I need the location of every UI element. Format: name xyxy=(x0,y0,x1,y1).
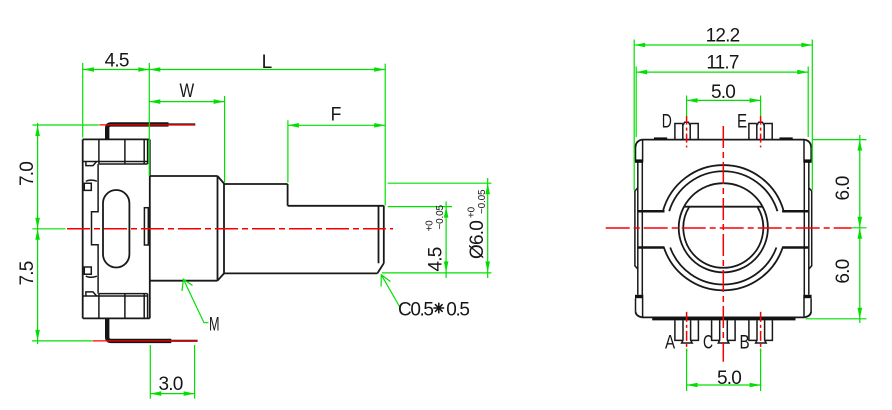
svg-text:B: B xyxy=(740,332,750,353)
bottom pin centerline xyxy=(92,340,197,342)
dimension L xyxy=(149,52,385,205)
label E xyxy=(737,111,747,132)
threaded section and flat step xyxy=(224,184,384,273)
label B xyxy=(740,332,750,353)
svg-text:11.7: 11.7 xyxy=(706,52,739,73)
svg-text:0.5: 0.5 xyxy=(446,300,469,321)
bottom ledge xyxy=(652,318,795,321)
pin D xyxy=(675,122,698,139)
svg-text:−0.05: −0.05 xyxy=(477,189,488,214)
svg-text:6.0: 6.0 xyxy=(833,259,854,283)
svg-text:C0.5: C0.5 xyxy=(398,300,433,321)
capsule slot xyxy=(103,190,129,268)
right side lug plate xyxy=(809,188,812,270)
svg-text:L: L xyxy=(262,52,272,73)
left ear tabs xyxy=(635,140,643,318)
bushing cylinder xyxy=(151,176,218,281)
body outline side view xyxy=(83,139,150,318)
svg-text:4.5: 4.5 xyxy=(105,51,129,72)
shaft D-cut circle R4 xyxy=(683,207,763,268)
dimension 3.0 bottom xyxy=(150,345,194,399)
dimension F xyxy=(288,105,385,183)
front body outline xyxy=(636,140,812,318)
label A xyxy=(665,332,675,353)
dimension 4.5 tolerance shaft flat xyxy=(382,202,491,279)
pin B centerline xyxy=(760,312,762,352)
main horizontal centerline left view xyxy=(67,228,393,230)
svg-text:D: D xyxy=(662,111,672,132)
pin E xyxy=(749,122,772,139)
label D xyxy=(662,111,672,132)
dimension diameter 6.0 tolerance xyxy=(388,178,492,278)
svg-text:Ø6.0: Ø6.0 xyxy=(467,221,488,259)
ring inner circle R2 xyxy=(669,171,777,284)
svg-text:12.2: 12.2 xyxy=(706,26,740,47)
svg-text:W: W xyxy=(180,81,195,102)
dimension 6.0 pair right xyxy=(806,135,867,323)
svg-text:4.5: 4.5 xyxy=(426,247,447,271)
svg-text:3.0: 3.0 xyxy=(158,374,182,395)
right ear tabs xyxy=(804,140,812,318)
dimension 11.7 xyxy=(636,52,808,137)
svg-text:+0: +0 xyxy=(467,206,478,218)
svg-text:7.5: 7.5 xyxy=(17,261,38,285)
svg-text:A: A xyxy=(665,332,675,353)
dimension W xyxy=(149,81,224,183)
shaft end chamfer xyxy=(377,206,384,274)
left inner profile with notch xyxy=(92,164,99,294)
bushing taper xyxy=(218,176,225,281)
svg-text:F: F xyxy=(331,105,341,126)
dimension 12.2 xyxy=(634,26,812,191)
right boss rectangle xyxy=(144,208,148,245)
bottom terminal strip xyxy=(83,294,148,319)
lower claw latch xyxy=(84,267,97,277)
pin C xyxy=(712,320,736,343)
pin E centerline xyxy=(760,116,762,148)
leader M xyxy=(182,279,219,335)
top terminal strip xyxy=(83,139,148,164)
top bent pin xyxy=(107,124,195,139)
leader C0.5x0.5 xyxy=(381,275,469,321)
top hook detail xyxy=(86,162,97,166)
dimension 7.0 and 7.5 left xyxy=(17,123,99,344)
pin A centerline xyxy=(686,312,688,352)
pin A xyxy=(675,320,699,343)
svg-text:C: C xyxy=(703,332,713,353)
bottom bent pin xyxy=(107,318,197,341)
front view horizontal centerline xyxy=(606,227,852,229)
svg-text:5.0: 5.0 xyxy=(711,82,735,103)
hub circle R3 xyxy=(679,183,768,272)
shaft flat chord xyxy=(684,206,763,208)
svg-text:−0.05: −0.05 xyxy=(435,205,446,230)
top edge bumps xyxy=(654,137,793,140)
front view vertical centerline xyxy=(722,126,724,362)
svg-text:6.0: 6.0 xyxy=(833,176,854,200)
svg-text:7.0: 7.0 xyxy=(17,162,38,186)
bottom hook detail xyxy=(86,292,97,296)
label C xyxy=(703,332,713,353)
left side lug plate xyxy=(635,188,638,270)
dimension 5.0 bottom xyxy=(687,349,761,392)
side notch lines xyxy=(638,211,808,247)
pin B xyxy=(749,320,773,343)
svg-text:M: M xyxy=(209,315,219,336)
top pin centerline xyxy=(99,124,194,126)
upper claw latch xyxy=(84,180,97,190)
svg-text:5.0: 5.0 xyxy=(717,368,741,389)
dimension 5.0 top xyxy=(687,82,761,116)
outer ring circle R1 xyxy=(663,165,784,290)
dimension 4.5 top left xyxy=(83,51,150,177)
pin D centerline xyxy=(686,116,688,148)
svg-text:E: E xyxy=(737,111,747,132)
svg-text:+0: +0 xyxy=(425,220,436,232)
